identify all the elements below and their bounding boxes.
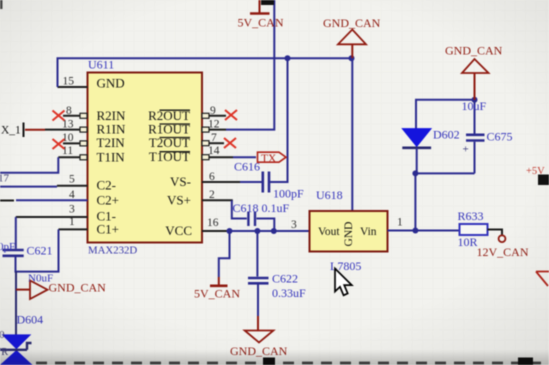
junction rail x229.5	[227, 228, 233, 234]
wire bottom rail D602-C675	[415, 172, 474, 174]
power 5V_CAN bottom symbol	[210, 277, 228, 286]
wire top link D602-C675	[416, 100, 475, 129]
wire C622 branch down	[256, 231, 258, 277]
port TX	[258, 152, 287, 165]
pin 8 line	[63, 115, 80, 117]
diode D604 bar and stub	[0, 343, 32, 350]
pin name R2OUT with overline	[148, 108, 190, 123]
pin 1 line	[59, 228, 88, 230]
no-ERC marker X on pin 10	[53, 139, 65, 149]
pin 5 line	[57, 185, 88, 187]
ground GND_CAN top-right (up triangle)	[462, 59, 489, 73]
ground GND_CAN top-middle (up triangle)	[338, 30, 366, 59]
junction at D602 bottom	[412, 170, 418, 176]
ground GND_CAN bottom (down triangle)	[245, 331, 274, 343]
pin 12 edge symbol	[202, 127, 209, 132]
pin 9 line	[209, 115, 226, 117]
op-amp/IC U611 body	[88, 73, 203, 243]
wire regulator pin1 to node	[388, 230, 416, 232]
pin 11 line	[58, 156, 80, 158]
capacitor C621	[3, 250, 24, 256]
capacitor C622 plates	[248, 278, 269, 283]
wire C675 top leg	[474, 100, 476, 134]
pin 14 line	[209, 156, 233, 158]
wire pin2 elbow down to C618 line	[232, 200, 247, 218]
junction at top rail x287.5	[285, 55, 291, 61]
junction at top rail x351.5	[349, 55, 355, 61]
wire pin15 GND loop to top rail	[58, 58, 352, 87]
diode D602 (blue, cathode up)	[402, 129, 431, 174]
regulator U618 body	[310, 211, 388, 252]
pin 13 line	[45, 129, 80, 131]
wire T1IN from left edge	[0, 157, 58, 173]
wire pin14 to TX port	[233, 156, 256, 158]
pin 2 line	[202, 199, 233, 201]
pin 16 line	[202, 230, 230, 232]
bottom vignette shading	[0, 350, 549, 365]
pin 7 line	[209, 142, 224, 144]
wire pin6 to C616 left plate	[240, 181, 262, 183]
wire R633 to 12V_CAN node	[488, 230, 503, 236]
black marker bottom-right	[518, 358, 533, 365]
junction node pin1/R633	[412, 228, 418, 234]
pin 12 line	[209, 129, 226, 131]
pin name T1OUT with overline	[149, 149, 190, 164]
pin 6 line	[202, 181, 240, 183]
capacitor C618 plates	[248, 212, 255, 227]
corner artifact top-left	[0, 0, 3, 9]
capacitor C675 plates (polarized)	[463, 135, 485, 156]
wire GND branch down to C616 right plate	[270, 58, 288, 182]
wire GND stem from top rail to regulator	[351, 58, 353, 211]
no-ERC marker X on pin 9	[225, 110, 237, 120]
resistor R633 body	[460, 224, 488, 235]
dashed bottom border	[36, 362, 549, 365]
pin 14 edge symbol	[202, 155, 209, 160]
wire C618 right down to VCC rail	[257, 219, 275, 232]
wire pin3 down to C621 top	[15, 217, 17, 249]
pin 11 edge symbol	[80, 155, 87, 160]
wire C2- from left edge	[0, 186, 57, 188]
wire C675 bottom leg	[474, 142, 476, 174]
ground GND_CAN left (right-pointing triangle)	[30, 281, 48, 300]
wire GND drop from C621 node to D604	[15, 272, 17, 335]
pin 3 line	[16, 216, 88, 218]
pin 13 edge symbol	[80, 127, 87, 132]
diode D604 TVS lower triangle	[0, 351, 34, 365]
mouse cursor	[335, 269, 352, 296]
wire node to R633	[415, 230, 459, 232]
pin 7 edge symbol	[202, 141, 209, 146]
wire red stem to top-right ground	[474, 73, 476, 100]
pin 4 line	[16, 199, 88, 201]
pin name R1OUT with overline	[148, 122, 190, 137]
power 5V_CAN top symbol	[250, 0, 270, 14]
port X_1	[1, 123, 24, 138]
pin 10 line	[63, 142, 80, 144]
pin 9 edge symbol	[202, 113, 209, 118]
no-ERC marker X on pin 8	[53, 111, 65, 121]
junction rail x257.4	[254, 228, 260, 234]
pin 15 line	[58, 86, 88, 88]
wire node up to D602/C675 bottom rail	[414, 173, 416, 230]
pin name T2OUT with overline	[149, 135, 190, 150]
black marker top edge	[261, 0, 274, 5]
wire C622 to ground	[257, 285, 259, 317]
no-ERC marker X on pin 7	[224, 138, 236, 148]
ground symbol clipped right edge	[536, 272, 549, 287]
wire pin1 down-left to C621 bottom node	[16, 229, 59, 271]
black marker right edge	[538, 175, 549, 186]
pin 8 edge symbol	[80, 113, 87, 118]
black marker bottom-middle	[263, 358, 275, 365]
wire X_1 to pin 13	[25, 129, 45, 131]
diode D604 TVS upper triangle	[3, 335, 30, 349]
wire pin12 R1OUT up to top edge	[226, 0, 274, 130]
junction at GND/C675 top	[472, 97, 478, 103]
wire stub to GND_CAN left symbol	[16, 289, 30, 291]
junction rail x273.8	[271, 228, 277, 234]
capacitor C616 plates	[263, 172, 269, 193]
pin 10 edge symbol	[80, 141, 87, 146]
wire VCC rail	[230, 230, 310, 232]
wire red stem into bottom ground	[257, 316, 259, 331]
node circle 12V_CAN	[499, 235, 506, 242]
wire C2+ left black stub	[0, 200, 14, 202]
wire 5V_CAN branch	[219, 231, 230, 277]
